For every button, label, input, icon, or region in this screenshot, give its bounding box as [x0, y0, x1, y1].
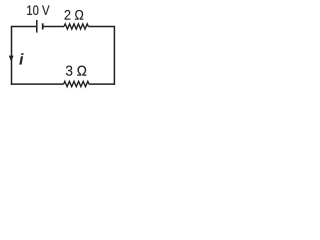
wire right vertical: [113, 26, 115, 85]
wire battery-to-resistor segment: [43, 26, 64, 28]
battery V1 long plate: [36, 20, 38, 33]
label 10 V: [27, 5, 49, 15]
label 3 ohm: [66, 66, 86, 76]
wire bottom-right segment: [89, 83, 115, 85]
wire bottom-left segment: [11, 83, 64, 85]
battery V1 short plate: [42, 23, 44, 29]
label i (current): [19, 53, 23, 64]
label 2 ohm: [65, 10, 84, 20]
current arrow head (downward) on left wire: [9, 56, 14, 62]
resistor R2 3-ohm zigzag: [64, 81, 89, 86]
wire top-left segment: [12, 26, 37, 28]
wire top-right segment: [88, 26, 114, 28]
wire left vertical: [11, 26, 13, 85]
resistor R1 2-ohm zigzag: [64, 24, 88, 29]
